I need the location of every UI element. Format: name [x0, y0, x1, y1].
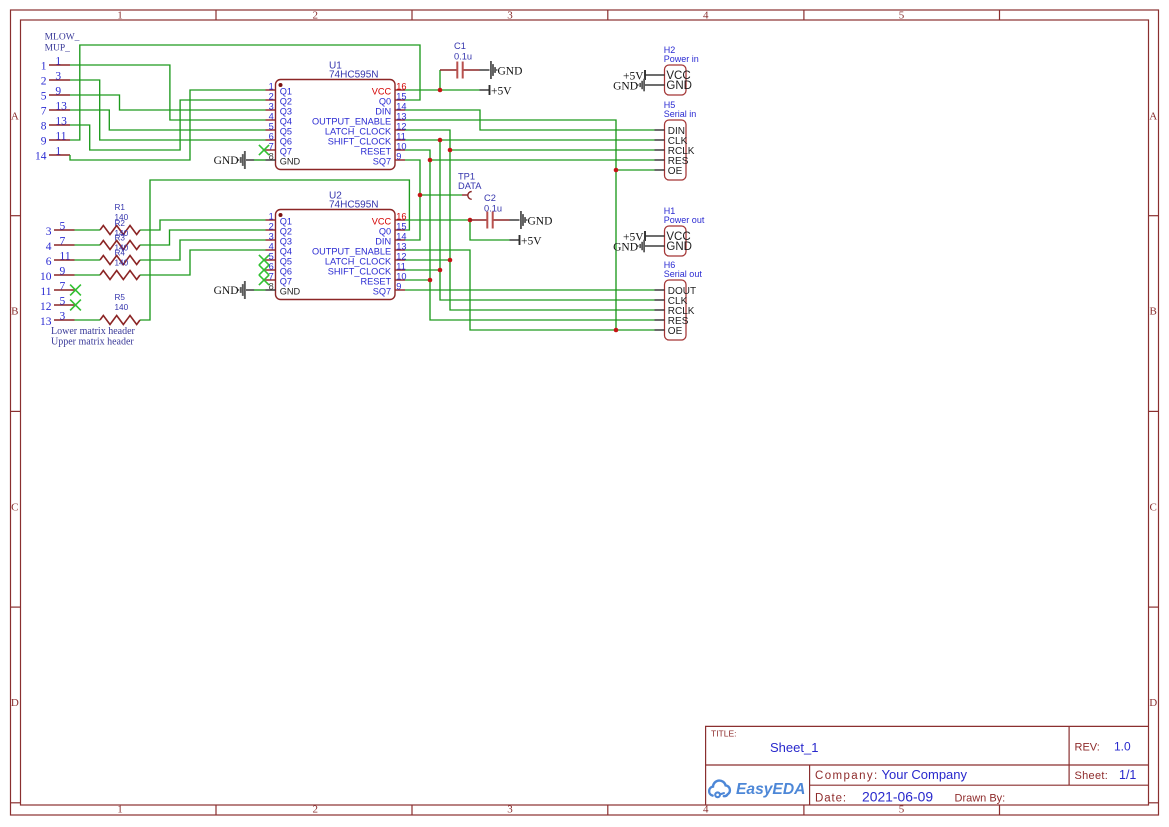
- svg-text:15: 15: [396, 92, 406, 102]
- wire U2 OUTPUT_ENABLE to H6 OE: [405, 250, 655, 330]
- svg-text:SHIFT_CLOCK: SHIFT_CLOCK: [328, 137, 392, 147]
- lower header pin 6 (net 11): [46, 251, 75, 268]
- U2 left pins Q1-Q7 GND: [266, 212, 301, 297]
- svg-text:EasyEDA: EasyEDA: [736, 781, 805, 798]
- svg-text:Q5: Q5: [280, 127, 292, 137]
- svg-text:11: 11: [40, 286, 51, 298]
- resistor R1 140: [100, 203, 140, 235]
- U1 right pins VCC Q0 DIN OUTPUT_ENABLE LATCH_CLOCK SHIFT_CLOCK RESET SQ7: [312, 82, 407, 167]
- svg-text:11: 11: [60, 251, 71, 263]
- svg-text:GND: GND: [280, 157, 301, 167]
- svg-text:Q2: Q2: [280, 97, 292, 107]
- title block values: [770, 740, 1136, 805]
- svg-text:OUTPUT_ENABLE: OUTPUT_ENABLE: [312, 117, 391, 127]
- wire net1 p14 to U1 Q1: [70, 90, 266, 160]
- svg-text:0.1u: 0.1u: [454, 52, 472, 62]
- svg-text:TP1: TP1: [458, 172, 475, 182]
- ground flag at C1: [480, 61, 523, 79]
- svg-text:SQ7: SQ7: [373, 157, 391, 167]
- svg-text:SHIFT_CLOCK: SHIFT_CLOCK: [328, 267, 392, 277]
- svg-text:2: 2: [41, 75, 47, 87]
- svg-text:16: 16: [396, 82, 406, 92]
- +5V flag at H1 VCC: [623, 231, 655, 243]
- wire R2 to U2 Q2: [140, 230, 266, 245]
- svg-text:14: 14: [35, 150, 47, 162]
- svg-text:140: 140: [115, 258, 129, 267]
- wire p4 lead to R2: [75, 244, 101, 246]
- svg-text:1: 1: [269, 82, 274, 92]
- svg-text:2: 2: [313, 10, 319, 22]
- svg-text:SQ7: SQ7: [373, 287, 391, 297]
- upper header pin 9 (net 11): [41, 131, 70, 148]
- svg-text:Q6: Q6: [280, 267, 292, 277]
- svg-text:Q1: Q1: [280, 217, 292, 227]
- ground flag at U2 pin 8: [214, 281, 266, 299]
- svg-text:Q7: Q7: [280, 277, 292, 287]
- svg-text:5: 5: [41, 90, 47, 102]
- svg-text:Q2: Q2: [280, 227, 292, 237]
- svg-text:GND: GND: [214, 285, 239, 297]
- svg-text:5: 5: [899, 10, 905, 22]
- svg-text:Q7: Q7: [280, 147, 292, 157]
- svg-text:5: 5: [269, 122, 274, 132]
- title block: [706, 726, 1149, 805]
- upper header pin 8 (net 13): [41, 116, 70, 133]
- svg-text:9: 9: [41, 135, 47, 147]
- capacitor C1 0.1u: [440, 41, 480, 79]
- svg-text:12: 12: [40, 301, 52, 313]
- lower header pin 12 (net 5): [40, 296, 75, 313]
- svg-text:8: 8: [41, 120, 47, 132]
- no-connect X on U2 pin 5: [259, 255, 269, 265]
- wire DATA spur to TP1: [420, 194, 462, 196]
- +5V flag at H2 VCC: [623, 70, 655, 82]
- svg-text:3: 3: [60, 311, 66, 323]
- lower header pin 13 (net 3): [40, 311, 75, 328]
- svg-text:7: 7: [60, 281, 66, 293]
- lower header pin 4 (net 7): [46, 236, 75, 253]
- wire net13 p7 to U1 Q5: [70, 110, 266, 130]
- svg-text:Date:: Date:: [815, 793, 847, 805]
- wire RES bus to H6 RES: [430, 160, 655, 320]
- svg-text:13: 13: [396, 112, 406, 122]
- wire p6 lead to R3: [75, 259, 101, 261]
- U2 right pins VCC Q0 DIN OUTPUT_ENABLE LATCH_CLOCK SHIFT_CLOCK RESET SQ7: [312, 212, 407, 297]
- svg-text:4: 4: [269, 112, 274, 122]
- no-connect X on pin 12: [70, 300, 81, 311]
- svg-text:REV:: REV:: [1075, 742, 1100, 754]
- wire RCLK bus to H6 RCLK: [450, 150, 655, 310]
- wire p10 lead to R4: [75, 274, 101, 276]
- upper header pin 2 (net 3): [41, 71, 70, 88]
- svg-text:7: 7: [269, 142, 274, 152]
- no-connect X on U1 pin 7: [259, 145, 269, 155]
- svg-text:Your Company: Your Company: [882, 767, 968, 782]
- resistor R3 140: [100, 234, 140, 265]
- +5V flag at C1 / U1 VCC: [480, 85, 513, 97]
- no-connect X on U2 pin 7: [259, 275, 269, 285]
- no-connect X on pin 11: [70, 285, 81, 296]
- svg-text:OE: OE: [668, 326, 683, 337]
- wire net11 p9 to U1 Q0: [70, 45, 420, 140]
- header H5 Serial in: [655, 100, 697, 180]
- U2 designator label: [329, 191, 378, 211]
- svg-text:12: 12: [396, 252, 406, 262]
- wire U2 VCC to C2: [405, 219, 470, 221]
- wire U1 OUTPUT_ENABLE to OE bus: [405, 120, 616, 330]
- svg-text:13: 13: [40, 316, 52, 328]
- ground flag at U1 pin 8: [214, 151, 266, 169]
- svg-text:2: 2: [269, 222, 274, 232]
- svg-text:12: 12: [396, 122, 406, 132]
- svg-text:B: B: [1150, 306, 1157, 318]
- svg-text:Q5: Q5: [280, 257, 292, 267]
- wire C1 to VCC rail: [439, 70, 441, 90]
- lower header pin 3 (net 5): [46, 221, 75, 238]
- svg-text:GND: GND: [528, 215, 553, 227]
- svg-text:Q0: Q0: [379, 227, 391, 237]
- wire net13 p8 to U1 Q2: [70, 100, 266, 150]
- svg-text:GND: GND: [613, 241, 638, 253]
- wire U2 SHIFT_CLOCK to CLK bus: [405, 269, 440, 271]
- svg-text:Upper matrix header: Upper matrix header: [51, 336, 134, 347]
- svg-text:R2: R2: [115, 219, 126, 228]
- svg-text:14: 14: [396, 102, 406, 112]
- svg-text:R5: R5: [115, 293, 126, 302]
- wire R1 to U2 Q1: [140, 220, 266, 230]
- svg-text:GND: GND: [280, 287, 301, 297]
- svg-text:9: 9: [55, 86, 61, 98]
- svg-text:Sheet:: Sheet:: [1075, 770, 1109, 782]
- wire R3 to U2 Q3: [140, 240, 266, 260]
- svg-text:+5V: +5V: [491, 85, 512, 97]
- svg-text:5: 5: [60, 221, 66, 233]
- svg-text:Power in: Power in: [664, 54, 699, 64]
- svg-text:DIN: DIN: [375, 237, 391, 247]
- svg-text:Serial in: Serial in: [664, 109, 697, 119]
- IC U2 74HC595N body: [276, 210, 396, 300]
- svg-text:Q4: Q4: [280, 247, 292, 257]
- svg-text:1/1: 1/1: [1119, 768, 1136, 782]
- svg-text:VCC: VCC: [372, 217, 392, 227]
- svg-text:GND: GND: [666, 80, 692, 92]
- svg-text:3: 3: [269, 102, 274, 112]
- svg-text:Q0: Q0: [379, 97, 391, 107]
- upper header pin 1 (net 1): [41, 56, 70, 73]
- svg-text:1.0: 1.0: [1114, 740, 1131, 754]
- svg-text:6: 6: [46, 256, 52, 268]
- svg-text:R4: R4: [115, 248, 126, 257]
- svg-text:+5V: +5V: [521, 235, 542, 247]
- svg-text:11: 11: [55, 131, 66, 143]
- upper header pin 14 (net 1): [35, 146, 70, 163]
- svg-text:D: D: [1149, 697, 1157, 709]
- wire OE bus to H5 OE: [616, 169, 655, 171]
- svg-text:8: 8: [269, 152, 274, 162]
- svg-text:5: 5: [899, 804, 905, 816]
- svg-text:C: C: [11, 502, 18, 514]
- svg-text:8: 8: [269, 282, 274, 292]
- upper header pin 7 (net 13): [41, 101, 70, 118]
- svg-text:TITLE:: TITLE:: [711, 729, 737, 739]
- wire U2 LATCH_CLOCK to RCLK bus: [405, 259, 450, 261]
- svg-text:2: 2: [269, 92, 274, 102]
- svg-text:16: 16: [396, 212, 406, 222]
- svg-text:Q6: Q6: [280, 137, 292, 147]
- wire U2 SQ7 to H6 DOUT: [405, 289, 655, 291]
- wire U1 VCC to +5V: [405, 89, 480, 91]
- svg-text:Q3: Q3: [280, 107, 292, 117]
- svg-text:LATCH_CLOCK: LATCH_CLOCK: [325, 257, 392, 267]
- header H6 Serial out: [655, 260, 703, 340]
- svg-text:11: 11: [396, 132, 406, 142]
- svg-text:C: C: [1150, 502, 1157, 514]
- svg-text:9: 9: [396, 282, 401, 292]
- svg-text:140: 140: [115, 303, 129, 312]
- svg-text:DIN: DIN: [375, 107, 391, 117]
- svg-text:0.1u: 0.1u: [484, 204, 502, 214]
- IC U1 74HC595N body: [276, 80, 396, 170]
- wire junctions: [418, 88, 619, 333]
- wire U2 RESET to RES bus: [405, 279, 430, 281]
- svg-text:Power out: Power out: [664, 215, 705, 225]
- svg-text:GND: GND: [498, 65, 523, 77]
- svg-text:R1: R1: [115, 203, 126, 212]
- svg-text:VCC: VCC: [372, 87, 392, 97]
- svg-text:4: 4: [703, 804, 709, 816]
- svg-text:7: 7: [269, 272, 274, 282]
- svg-text:9: 9: [60, 266, 66, 278]
- resistor R2 140: [100, 219, 140, 250]
- wire p13 lead to R5: [75, 319, 101, 321]
- svg-text:2: 2: [313, 804, 319, 816]
- svg-text:1: 1: [55, 56, 61, 68]
- test point TP1 DATA: [458, 172, 482, 200]
- lower header pin 11 (net 7): [40, 281, 74, 298]
- svg-text:6: 6: [269, 132, 274, 142]
- wire CLK bus to H6 CLK: [440, 140, 655, 300]
- svg-text:14: 14: [396, 232, 406, 242]
- title block labels: [711, 729, 1108, 805]
- svg-text:3: 3: [507, 10, 513, 22]
- wire net9 p5 to U1 Q3: [70, 95, 266, 110]
- resistor R5 140: [100, 293, 140, 324]
- svg-text:Q1: Q1: [280, 87, 292, 97]
- svg-text:74HC595N: 74HC595N: [329, 200, 378, 211]
- lower header pin 10 (net 9): [40, 266, 75, 283]
- svg-text:DATA: DATA: [458, 181, 482, 191]
- svg-text:10: 10: [40, 271, 52, 283]
- ground flag at H1 GND: [613, 240, 654, 254]
- svg-text:B: B: [11, 306, 18, 318]
- svg-text:4: 4: [703, 10, 709, 22]
- EasyEDA logo: [709, 781, 730, 798]
- wire U1 RESET to H5 RES: [405, 150, 655, 160]
- svg-text:3: 3: [46, 226, 52, 238]
- svg-text:3: 3: [507, 804, 513, 816]
- svg-text:Q3: Q3: [280, 237, 292, 247]
- wire net3 p2 to U1 Q6: [70, 80, 266, 140]
- svg-text:OUTPUT_ENABLE: OUTPUT_ENABLE: [312, 247, 391, 257]
- wire p3 lead to R1: [75, 229, 101, 231]
- svg-text:4: 4: [269, 242, 274, 252]
- svg-text:5: 5: [269, 252, 274, 262]
- svg-text:RESET: RESET: [360, 277, 391, 287]
- svg-text:1: 1: [41, 60, 47, 72]
- wire R4 to U2 Q4: [140, 250, 266, 275]
- header H2 Power in: [655, 45, 699, 95]
- svg-text:MLOW_: MLOW_: [45, 33, 80, 43]
- svg-text:OE: OE: [668, 166, 683, 177]
- svg-text:7: 7: [60, 236, 66, 248]
- svg-text:Q4: Q4: [280, 117, 292, 127]
- svg-text:11: 11: [396, 262, 406, 272]
- wire U1 DIN to H5 DIN: [405, 110, 655, 130]
- svg-text:3: 3: [269, 232, 274, 242]
- svg-text:15: 15: [396, 222, 406, 232]
- svg-text:5: 5: [60, 296, 66, 308]
- svg-text:Serial out: Serial out: [664, 269, 703, 279]
- svg-text:3: 3: [55, 71, 61, 83]
- wire R5 to U2 Q0: [140, 180, 409, 320]
- svg-text:6: 6: [269, 262, 274, 272]
- svg-text:C2: C2: [484, 193, 496, 203]
- svg-text:1: 1: [55, 146, 61, 158]
- no-connect X on U2 pin 6: [259, 265, 269, 275]
- wire U1 SHIFT_CLOCK to H5 CLK: [405, 139, 655, 141]
- svg-text:13: 13: [55, 101, 67, 113]
- ground flag at C2: [510, 211, 553, 229]
- svg-text:4: 4: [46, 241, 52, 253]
- svg-text:GND: GND: [613, 80, 638, 92]
- svg-text:1: 1: [117, 804, 123, 816]
- svg-text:LATCH_CLOCK: LATCH_CLOCK: [325, 127, 392, 137]
- svg-text:2021-06-09: 2021-06-09: [862, 789, 933, 805]
- U1 designator label: [329, 61, 378, 81]
- svg-text:74HC595N: 74HC595N: [329, 70, 378, 81]
- svg-text:1: 1: [269, 212, 274, 222]
- ground flag at H2 GND: [613, 79, 654, 93]
- svg-text:GND: GND: [666, 241, 692, 253]
- +5V flag at C2 / U2 VCC: [510, 235, 543, 247]
- wire C2 junction to +5V: [470, 220, 510, 240]
- capacitor C2 0.1u: [470, 193, 510, 229]
- svg-text:1: 1: [117, 10, 123, 22]
- wire net1 p1 to U1 Q4: [70, 65, 266, 120]
- header H1 Power out: [655, 206, 705, 256]
- U1 left pins Q1-Q7 GND: [266, 82, 301, 167]
- svg-text:A: A: [11, 110, 19, 122]
- svg-text:C1: C1: [454, 41, 466, 51]
- svg-text:RESET: RESET: [360, 147, 391, 157]
- svg-text:10: 10: [396, 272, 406, 282]
- svg-text:13: 13: [55, 116, 67, 128]
- resistor R4 140: [100, 248, 140, 279]
- svg-text:R3: R3: [115, 234, 126, 243]
- svg-text:Company:: Company:: [815, 770, 879, 782]
- svg-text:D: D: [11, 697, 19, 709]
- svg-text:Drawn By:: Drawn By:: [955, 793, 1006, 805]
- svg-text:Sheet_1: Sheet_1: [770, 740, 818, 755]
- svg-text:MUP_: MUP_: [45, 44, 71, 54]
- wire U1 SQ7 to U2 DIN: [405, 160, 420, 240]
- svg-text:GND: GND: [214, 155, 239, 167]
- svg-text:10: 10: [396, 142, 406, 152]
- svg-text:9: 9: [396, 152, 401, 162]
- wire U1 LATCH_CLOCK to H5 RCLK: [405, 130, 655, 150]
- svg-text:A: A: [1149, 110, 1157, 122]
- upper header pin 5 (net 9): [41, 86, 70, 103]
- svg-text:7: 7: [41, 105, 47, 117]
- svg-text:13: 13: [396, 242, 406, 252]
